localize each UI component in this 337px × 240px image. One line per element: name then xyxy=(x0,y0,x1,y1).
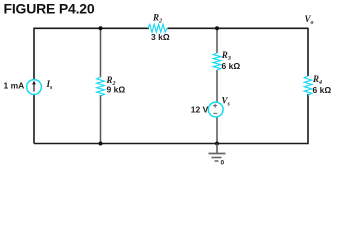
node top R2 branch xyxy=(99,26,103,30)
svg-text:12 V: 12 V xyxy=(191,104,209,114)
ground xyxy=(209,144,226,162)
resistor R3 vertical zigzag xyxy=(213,53,221,70)
svg-text:6 kΩ: 6 kΩ xyxy=(313,85,332,95)
wire branch R3 to source xyxy=(216,70,218,102)
svg-text:6 kΩ: 6 kΩ xyxy=(222,61,241,71)
svg-text:9 kΩ: 9 kΩ xyxy=(107,84,126,94)
wire source to bottom rail xyxy=(216,117,218,144)
node top R3 branch xyxy=(215,26,219,30)
wire left side upper xyxy=(33,28,35,80)
resistor R2 3k horizontal zigzag xyxy=(148,24,167,32)
wire bottom rail xyxy=(34,143,308,145)
svg-text:FIGURE P4.20: FIGURE P4.20 xyxy=(4,1,95,17)
resistor R2 9k vertical zigzag xyxy=(97,77,105,96)
node bottom R2 branch xyxy=(99,142,103,146)
svg-text:3 kΩ: 3 kΩ xyxy=(151,32,170,42)
resistor R4 vertical zigzag xyxy=(304,76,312,95)
current source Is circle xyxy=(27,80,42,95)
wire branch R2 upper xyxy=(100,28,102,77)
wire top rail left segment xyxy=(34,27,149,29)
voltage source Vs circle xyxy=(208,102,223,117)
wire top rail right segment xyxy=(168,27,309,29)
svg-text:0: 0 xyxy=(221,160,225,167)
wire branch R2 lower xyxy=(100,95,102,144)
wire right side upper xyxy=(307,28,309,76)
node bottom ground xyxy=(215,142,219,146)
wire branch R3 upper xyxy=(216,28,218,53)
wire right side lower xyxy=(307,94,309,144)
svg-text:1 mA: 1 mA xyxy=(4,81,25,91)
wire left side lower xyxy=(33,95,35,144)
